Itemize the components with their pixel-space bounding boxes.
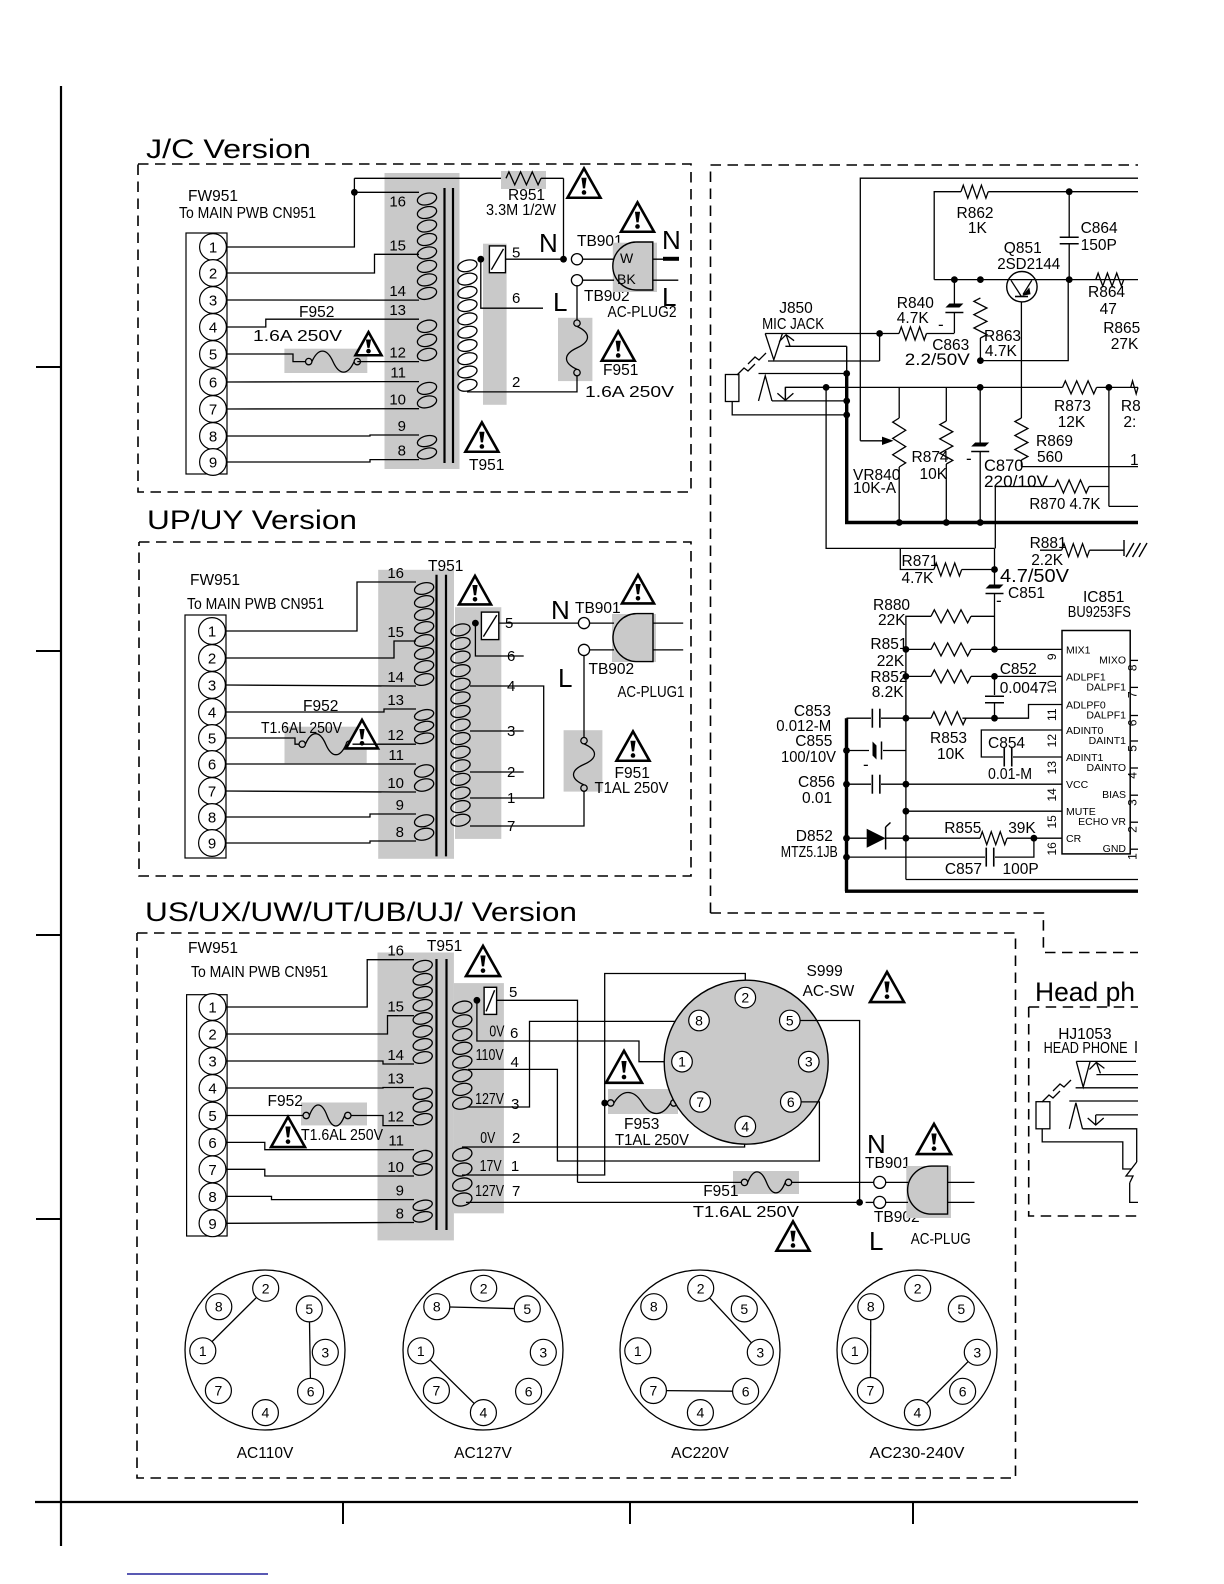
svg-text:8: 8 <box>695 1013 703 1029</box>
svg-text:9: 9 <box>1045 653 1059 660</box>
svg-text:7: 7 <box>867 1383 875 1399</box>
warning triangle at T951 (UP/UY) <box>459 576 491 604</box>
svg-text:N: N <box>551 595 570 625</box>
AC-PLUG2 prong L <box>653 279 679 281</box>
protector on secondary pin 5 <box>489 246 505 273</box>
wire R873-node corner to edge <box>1109 505 1138 507</box>
svg-text:8: 8 <box>396 824 404 841</box>
T951 (US) secondary winding lower <box>451 1146 473 1163</box>
svg-text:12K: 12K <box>1058 414 1086 431</box>
svg-text:100P: 100P <box>1003 861 1039 878</box>
wire F951 to TB901 (US) <box>792 1181 874 1183</box>
svg-text:2: 2 <box>512 374 520 391</box>
head phone dashed box <box>1029 1006 1138 1008</box>
connector FW951 (UP/UY) pin 7 <box>199 778 226 805</box>
svg-text:3: 3 <box>208 678 216 695</box>
svg-text:3: 3 <box>539 1344 547 1360</box>
gray shadow of AC-PLUG1 <box>612 614 656 662</box>
voltage setting diagram AC127V <box>403 1270 563 1430</box>
S999 contact 2 <box>735 987 756 1008</box>
connector FW951 pin 5 <box>200 341 227 368</box>
wire F951 to secondary pin 7 (UP/UY) <box>583 791 586 826</box>
svg-text:1: 1 <box>851 1343 859 1359</box>
warning triangle above T951 label <box>465 422 498 451</box>
svg-text:MIXO: MIXO <box>1099 654 1126 666</box>
svg-text:R851: R851 <box>870 636 907 653</box>
svg-text:4: 4 <box>697 1405 705 1421</box>
HP jack arrow lead <box>1096 1074 1138 1076</box>
svg-text:4: 4 <box>511 1054 519 1071</box>
svg-text:F953: F953 <box>624 1116 659 1133</box>
junction C864 top <box>1066 188 1073 195</box>
svg-text:0V: 0V <box>480 1130 496 1147</box>
svg-text:R881: R881 <box>1030 535 1067 552</box>
wire TB902 to fuse F951 <box>576 286 578 320</box>
T951 (US) primary winding 13-12 <box>412 1086 434 1101</box>
svg-text:C855: C855 <box>795 733 832 750</box>
svg-text:8.2K: 8.2K <box>872 684 905 701</box>
svg-text:4: 4 <box>208 705 216 722</box>
svg-text:T951: T951 <box>427 938 462 955</box>
connector FW951 (US) pin 3 <box>199 1048 226 1075</box>
svg-text:8: 8 <box>396 1206 404 1223</box>
gray highlight behind R951 <box>501 171 546 189</box>
wire TB901 to plug <box>583 258 614 260</box>
svg-text:2: 2 <box>512 1130 520 1147</box>
emitter of Q851 to R869 <box>1020 302 1022 418</box>
svg-text:4: 4 <box>914 1405 922 1421</box>
svg-text:C854: C854 <box>988 735 1025 752</box>
ground bus vertical (left) <box>846 346 848 374</box>
MIC jack sleeve <box>725 375 739 402</box>
svg-text:J850: J850 <box>779 300 813 317</box>
S999 contact 3 <box>799 1051 820 1072</box>
svg-text:DALPF1: DALPF1 <box>1086 681 1126 693</box>
svg-text:F951: F951 <box>603 362 638 379</box>
fuse F951 (US) <box>741 1179 747 1185</box>
IC851 block <box>1062 631 1130 854</box>
svg-text:6: 6 <box>208 1135 216 1152</box>
connector FW951 (UP/UY) pin 9 <box>199 830 226 857</box>
svg-text:TB902: TB902 <box>589 661 635 678</box>
svg-text:22K: 22K <box>878 612 906 629</box>
svg-text:7: 7 <box>208 1162 216 1179</box>
svg-text:5: 5 <box>786 1013 794 1029</box>
svg-text:3: 3 <box>507 723 515 740</box>
row 9 R851 to MIX1 <box>903 646 910 653</box>
svg-text:15: 15 <box>387 999 404 1016</box>
svg-text:9: 9 <box>396 797 404 814</box>
T951 (UP/UY) primary pin 15 lead <box>396 640 416 642</box>
svg-text:1: 1 <box>1130 452 1139 469</box>
connector FW951 pin 4 <box>200 314 227 341</box>
svg-text:W: W <box>620 250 634 266</box>
svg-text:4: 4 <box>262 1405 270 1421</box>
T951 (UP/UY) secondary gray strip <box>455 607 501 839</box>
svg-text:6: 6 <box>1126 719 1140 726</box>
svg-text:R864: R864 <box>1088 284 1125 301</box>
page border bottom line <box>35 1501 1138 1503</box>
vertical from R873 node <box>1108 387 1110 506</box>
earth symbol <box>1090 549 1125 551</box>
connector FW951 pin 6 <box>200 369 227 396</box>
svg-text:22K: 22K <box>877 653 905 670</box>
svg-text:VCC: VCC <box>1066 779 1089 791</box>
wire protector to TB901 (UP/UY) <box>499 622 578 624</box>
svg-text:N: N <box>662 225 681 255</box>
T951 (US) primary winding 16-15-14 <box>412 958 434 973</box>
fuse F953 <box>608 1100 614 1106</box>
svg-text:R855: R855 <box>944 820 981 837</box>
resistor R880 <box>906 616 931 649</box>
svg-text:0.01-M: 0.01-M <box>988 766 1032 783</box>
svg-text:11: 11 <box>388 747 404 764</box>
svg-text:9: 9 <box>209 455 217 472</box>
svg-text:T951: T951 <box>428 558 463 575</box>
gray highlight behind fuse F951 (UP/UY) <box>564 730 603 791</box>
resistor R873 <box>1063 381 1097 394</box>
S999 contact 4 <box>735 1116 756 1137</box>
MIC jack sleeve lead <box>732 402 847 415</box>
svg-text:ECHO VR: ECHO VR <box>1078 816 1126 828</box>
svg-text:2: 2 <box>741 990 749 1006</box>
T951 (UP/UY) primary pin 10 lead <box>396 791 416 793</box>
capacitor C853 <box>847 717 872 719</box>
svg-text:2: 2 <box>208 1027 216 1044</box>
wire TB901 to plug (UP/UY) <box>590 622 614 624</box>
svg-text:AC127V: AC127V <box>454 1445 512 1462</box>
svg-text:C864: C864 <box>1081 220 1118 237</box>
wire pin6 to T951-11 (UP/UY) <box>226 763 397 765</box>
MIC jack arrow lead to ground bus <box>785 345 846 347</box>
svg-text:2:: 2: <box>1123 414 1136 431</box>
T951 (UP/UY) primary pin 13 lead <box>396 708 416 710</box>
svg-text:9: 9 <box>396 1183 404 1200</box>
svg-text:T1AL 250V: T1AL 250V <box>595 780 670 797</box>
svg-text:6: 6 <box>209 375 217 392</box>
svg-text:FW951: FW951 <box>188 940 238 957</box>
svg-text:6: 6 <box>742 1383 750 1399</box>
svg-text:AC-SW: AC-SW <box>803 983 855 1000</box>
T951 (UP/UY) primary pin 11 lead <box>396 763 416 765</box>
thick bus left vertical <box>845 718 848 891</box>
svg-text:1.6A 250V: 1.6A 250V <box>253 328 343 345</box>
svg-text:5: 5 <box>509 984 517 1001</box>
svg-text:16: 16 <box>389 193 406 210</box>
capacitor C870 (polarized) <box>979 387 981 444</box>
connector FW951 pin 8 <box>200 423 227 450</box>
wire R869 to edge <box>1021 466 1138 468</box>
T951 primary pin 13 lead <box>398 318 419 320</box>
secondary tap 6 0V to S999 pin 1 <box>477 1000 671 1061</box>
wire tap5 to fuse F951 (US) <box>578 1181 742 1183</box>
svg-text:GND: GND <box>1103 843 1127 855</box>
HP jack lower switch arrow <box>1095 1115 1097 1125</box>
warning triangle at F951 <box>602 331 635 360</box>
warning triangle at F952 (UP/UY) <box>346 720 378 748</box>
T951 primary pin 12 lead <box>398 361 419 363</box>
svg-text:C852: C852 <box>1000 661 1037 678</box>
svg-text:T1.6AL 250V: T1.6AL 250V <box>301 1127 384 1144</box>
svg-text:3.3M 1/2W: 3.3M 1/2W <box>486 202 556 219</box>
fuse F952 <box>306 358 312 364</box>
terminal TB902 <box>571 275 582 286</box>
svg-text:2: 2 <box>209 266 217 283</box>
thick ground bus bottom <box>845 890 1138 893</box>
connector FW951 (US) pin 4 <box>199 1075 226 1102</box>
svg-text:5: 5 <box>208 1108 216 1125</box>
T951 (UP/UY) primary pin 9 lead <box>396 813 416 815</box>
svg-text:4: 4 <box>209 320 217 337</box>
S999 contact 6 <box>781 1092 802 1113</box>
wire pin7 to T951-10 (UP/UY) <box>226 791 397 792</box>
svg-text:12: 12 <box>1045 734 1059 748</box>
T951 (US) secondary gray strip <box>454 983 504 1213</box>
T951 primary pin 15 lead <box>398 253 419 255</box>
svg-text:3: 3 <box>511 1096 519 1113</box>
secondary tap 3 127V to S999 pin 8 <box>468 1021 689 1107</box>
warning triangle above AC-PLUG1 <box>622 575 654 603</box>
svg-text:3: 3 <box>321 1344 329 1360</box>
svg-text:6: 6 <box>208 757 216 774</box>
wire secondary tap 6 stub <box>481 259 543 308</box>
T951 (UP/UY) primary pin 12 lead <box>396 743 416 745</box>
HP jack sleeve lead <box>1042 1129 1131 1169</box>
svg-text:39K: 39K <box>1008 820 1036 837</box>
svg-text:R870 4.7K: R870 4.7K <box>1029 496 1101 513</box>
svg-text:8: 8 <box>398 443 406 460</box>
T951 (US) primary pin 10 lead <box>398 1175 414 1177</box>
svg-text:3: 3 <box>756 1344 764 1360</box>
transformer T951 core <box>443 188 445 463</box>
vertical R870-left to mixer node <box>994 487 996 549</box>
page border bottom tick marks <box>342 1502 344 1524</box>
svg-text:-: - <box>996 591 1002 610</box>
svg-text:1: 1 <box>634 1343 642 1359</box>
svg-text:BK: BK <box>617 271 636 287</box>
junction C864 bottom <box>1066 276 1073 283</box>
svg-text:MIX1: MIX1 <box>1066 644 1091 656</box>
page border left line <box>60 86 62 1546</box>
secondary top junction (UP/UY) <box>472 620 479 627</box>
svg-text:CR: CR <box>1066 833 1082 845</box>
svg-text:8: 8 <box>209 429 217 446</box>
svg-text:13: 13 <box>387 1071 404 1088</box>
svg-text:1: 1 <box>507 790 515 807</box>
T951 (US) primary pin 15 lead <box>398 1015 414 1017</box>
svg-text:27K: 27K <box>1111 336 1139 353</box>
C854 coupling between pins 12 and 13 <box>981 730 1062 757</box>
svg-text:8: 8 <box>867 1299 875 1315</box>
svg-text:1: 1 <box>199 1343 207 1359</box>
T951 (US) primary pin 12 lead <box>398 1125 414 1127</box>
svg-text:1: 1 <box>678 1054 686 1070</box>
wire R863 bottom to collector <box>980 280 1068 361</box>
junction R873 right <box>1106 384 1113 391</box>
wire pin8 to T951-9 (UP/UY) <box>226 814 397 817</box>
wire pin2 to T951-15 <box>227 254 399 273</box>
svg-text:4.7K: 4.7K <box>897 310 930 327</box>
wire pin9 to T951-8 (UP/UY) <box>226 841 397 843</box>
svg-text:AC-PLUG1: AC-PLUG1 <box>618 684 685 701</box>
svg-text:5: 5 <box>208 731 216 748</box>
secondary tap 4 and 1 bracket (UP/UY) <box>470 686 544 798</box>
wire protector down to F951 (US) <box>497 1000 578 1182</box>
connector FW951 (UP/UY) pin 2 <box>199 645 226 672</box>
svg-text:11: 11 <box>388 1133 404 1150</box>
T951 (US) primary winding 11-10 <box>412 1149 434 1164</box>
T951 (UP/UY) primary winding 16-15-14 <box>413 581 435 596</box>
gray highlight behind fuse F951 (US) <box>733 1171 799 1194</box>
capacitor C863 (polarized) <box>953 280 955 305</box>
wire pin4 to T951-13 (UP/UY) <box>226 709 397 712</box>
gray highlight behind fuse F953 <box>608 1089 678 1114</box>
wires TB to plug (US) <box>886 1181 908 1183</box>
svg-text:4.7K: 4.7K <box>985 343 1018 360</box>
svg-text:10K: 10K <box>937 746 965 763</box>
svg-text:3: 3 <box>805 1054 813 1070</box>
svg-text:1: 1 <box>1126 853 1140 860</box>
svg-text:6: 6 <box>307 1383 315 1399</box>
svg-text:FW951: FW951 <box>188 188 238 205</box>
capacitor C857 <box>843 854 850 861</box>
wire pin9 to T951-8 <box>227 460 399 462</box>
svg-text:8: 8 <box>208 810 216 827</box>
gray highlight behind fuse F951 <box>558 318 592 381</box>
fuse F951 (J/C) <box>574 320 580 326</box>
transformer T951 (US) core <box>435 959 437 1230</box>
HP jack tip contact <box>1076 1060 1136 1062</box>
AC-PLUG prongs (US) <box>948 1181 975 1183</box>
svg-text:To MAIN PWB CN951: To MAIN PWB CN951 <box>179 205 316 222</box>
svg-text:7: 7 <box>507 818 515 835</box>
potentiometer VR840 <box>898 387 900 418</box>
gray shadow of AC-PLUG (US) <box>906 1166 951 1218</box>
svg-text:F952: F952 <box>268 1093 303 1110</box>
wire F952 to T951-12 <box>357 361 398 363</box>
svg-text:6: 6 <box>787 1094 795 1110</box>
S999 contact 1 <box>672 1051 693 1072</box>
wire TB902 to plug <box>583 279 614 281</box>
connector FW951 (US) pin 5 <box>199 1102 226 1129</box>
resistor R869 <box>1015 418 1028 460</box>
svg-text:3: 3 <box>209 293 217 310</box>
svg-text:2.2K: 2.2K <box>1031 552 1064 569</box>
svg-text:MTZ5.1JB: MTZ5.1JB <box>781 844 838 861</box>
HP jack tip switch arrow <box>1096 1062 1100 1073</box>
svg-text:8: 8 <box>650 1299 658 1315</box>
HP jack ring triangle <box>1069 1103 1082 1129</box>
svg-text:5: 5 <box>1126 745 1140 752</box>
wire pin6 to T951-11 (US) <box>226 1142 398 1149</box>
T951 primary pin 11 lead <box>398 381 419 383</box>
wire pin7 to T951-10 (US) <box>226 1169 398 1176</box>
connector FW951 pin 2 <box>200 260 227 287</box>
voltage setting diagram AC230-240V <box>837 1270 997 1430</box>
svg-text:2: 2 <box>507 764 515 781</box>
resistor R874 <box>945 387 947 421</box>
AC-PLUG (US) body <box>908 1166 948 1214</box>
R863 bottom dot <box>977 357 984 364</box>
S999 contact 8 <box>689 1010 710 1031</box>
T951 secondary winding 5-6-2 <box>457 258 479 274</box>
voltage setting diagram AC110V <box>185 1270 345 1430</box>
VR840 wiper arrow <box>860 440 884 442</box>
svg-text:C856: C856 <box>798 774 835 791</box>
wire pin5 to fuse F952 (UP/UY) <box>226 738 300 744</box>
svg-text:1K: 1K <box>968 220 988 237</box>
svg-text:2: 2 <box>1126 826 1140 833</box>
svg-text:10K-A: 10K-A <box>853 480 897 497</box>
svg-text:4: 4 <box>741 1118 749 1134</box>
T951 (US) primary pin 9 lead <box>398 1199 414 1201</box>
svg-text:110V: 110V <box>476 1047 505 1064</box>
junction C870 top <box>977 384 984 391</box>
svg-text:14: 14 <box>387 669 404 686</box>
svg-text:AC-PLUG2: AC-PLUG2 <box>608 304 677 321</box>
MIC jack break contact <box>748 353 766 364</box>
top supply rail <box>860 178 1138 441</box>
connector FW951 pin 3 <box>200 287 227 314</box>
T951 (US) primary pin 13 lead <box>398 1087 414 1089</box>
S999 contact 7 <box>690 1092 711 1113</box>
MIC jack tip switch arrow <box>786 335 790 347</box>
svg-text:US/UX/UW/UT/UB/UJ/ Version: US/UX/UW/UT/UB/UJ/ Version <box>145 897 577 927</box>
wire TB902 to plug (UP/UY) <box>590 649 614 651</box>
svg-text:6: 6 <box>510 1025 518 1042</box>
svg-text:-: - <box>938 315 944 334</box>
row 11 R853 <box>903 715 910 722</box>
svg-text:6: 6 <box>512 290 520 307</box>
T951 (UP/UY) primary winding 9-8 <box>413 813 435 829</box>
svg-text:1.6A 250V: 1.6A 250V <box>585 384 675 401</box>
MIC jack tip contact <box>765 333 879 335</box>
svg-text:6: 6 <box>525 1383 533 1399</box>
transformer T951 (UP/UY) gray body <box>378 570 454 859</box>
transformer T951 (US) gray body <box>378 953 454 1241</box>
wire pin2 to T951-15 (UP/UY) <box>226 641 397 658</box>
connector FW951 pin 9 <box>200 449 227 476</box>
T951 (US) primary pin 14 lead <box>398 1063 414 1065</box>
HP jack spring pin <box>1126 1162 1137 1183</box>
row to VR840 R874 C870 R873 <box>785 386 1062 388</box>
svg-text:R853: R853 <box>930 730 967 747</box>
svg-text:AC230-240V: AC230-240V <box>870 1445 966 1462</box>
ground bus horizontal <box>845 521 1138 524</box>
svg-text:7: 7 <box>209 402 217 419</box>
T951 primary pin 9 lead <box>398 434 419 436</box>
connector FW951 (US) pin 9 <box>199 1210 226 1237</box>
voltage setting diagram AC220V <box>620 1270 780 1430</box>
svg-text:TB901: TB901 <box>865 1155 911 1172</box>
wire pin8 to T951-9 (US) <box>226 1196 398 1199</box>
connector FW951 (UP/UY) pin 5 <box>199 725 226 752</box>
warning triangle at S999 <box>870 972 904 1002</box>
wire F952 to T951-12 (UP/UY) <box>353 743 397 745</box>
transformer T951 (UP/UY) core <box>435 575 437 857</box>
node N junction <box>560 256 567 263</box>
wire F953 to S999 pin 7 <box>677 1102 690 1104</box>
svg-text:DAINTO: DAINTO <box>1087 762 1126 774</box>
gray highlight behind fuse F952 (UP/UY) <box>285 727 367 764</box>
capacitor C856 <box>843 781 850 788</box>
svg-text:J/C Version: J/C Version <box>146 134 311 164</box>
svg-text:4: 4 <box>507 678 515 695</box>
svg-text:14: 14 <box>389 283 406 300</box>
svg-text:L: L <box>869 1226 883 1256</box>
svg-text:D852: D852 <box>796 828 833 845</box>
fuse F952 (UP/UY) <box>299 741 305 747</box>
